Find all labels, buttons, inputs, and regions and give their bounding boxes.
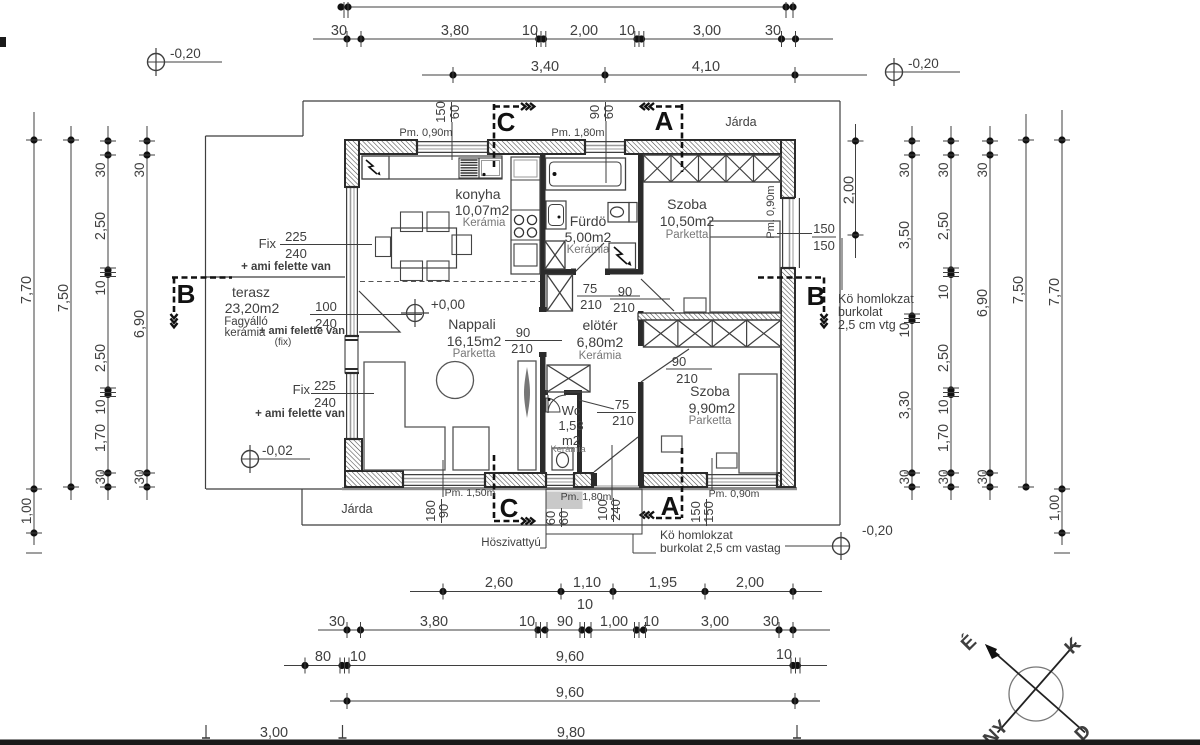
svg-text:1,00: 1,00: [1047, 495, 1062, 521]
window end ticks right wall: [781, 198, 795, 268]
kitchen electric panel with arrow: [362, 156, 389, 179]
outer wall top-left segment: [345, 140, 417, 154]
top dim line segments (y=39): [313, 23, 833, 47]
svg-text:90: 90: [557, 614, 573, 630]
oven: [514, 244, 537, 266]
svg-text:7,70: 7,70: [19, 276, 35, 304]
svg-text:2,00: 2,00: [736, 575, 764, 591]
+0,00 benchmark: [401, 297, 465, 327]
svg-text:10,07m2: 10,07m2: [455, 202, 510, 218]
svg-text:60: 60: [601, 105, 616, 119]
left dim line 30/2,50/10/2,50/10/1,70/30: [93, 126, 116, 500]
svg-text:90: 90: [587, 105, 602, 119]
Fix 225/240 upper label: [241, 229, 372, 273]
svg-text:2,50: 2,50: [936, 344, 952, 372]
section B marker right: [758, 278, 828, 328]
top wall window 150/60 kitchen: [417, 141, 488, 153]
svg-text:10: 10: [350, 649, 366, 665]
kitchen dish rack: [459, 158, 479, 178]
svg-text:1,10: 1,10: [573, 575, 601, 591]
svg-text:10: 10: [897, 322, 912, 337]
black mark left edge: [0, 37, 6, 47]
svg-text:150: 150: [701, 501, 716, 523]
terasz label: [224, 284, 345, 348]
svg-text:210: 210: [612, 413, 634, 428]
section A marker top: [641, 103, 682, 172]
svg-text:240: 240: [285, 246, 307, 261]
dining table: [392, 228, 457, 268]
svg-text:60: 60: [556, 511, 571, 525]
svg-text:6,90: 6,90: [132, 310, 148, 338]
60/60 rotated label: [543, 508, 571, 527]
svg-text:30: 30: [765, 23, 781, 39]
svg-text:7,50: 7,50: [56, 284, 72, 312]
benchmark -0,20 bottom right: [785, 523, 893, 560]
svg-text:3,30: 3,30: [897, 391, 913, 419]
top window label 150/60 rotated: [433, 101, 462, 160]
section A marker bottom: [641, 448, 682, 521]
svg-text:Fix: Fix: [259, 236, 277, 251]
svg-text:150: 150: [813, 221, 835, 236]
svg-text:3,80: 3,80: [441, 23, 469, 39]
left wall terrace door frame: [345, 336, 358, 373]
svg-text:225: 225: [314, 378, 336, 393]
svg-text:elötér: elötér: [582, 317, 617, 333]
svg-text:7,50: 7,50: [1011, 276, 1027, 304]
svg-text:Parketta: Parketta: [453, 348, 496, 360]
svg-text:30: 30: [897, 469, 912, 484]
svg-text:30: 30: [897, 162, 912, 177]
svg-text:3,00: 3,00: [260, 725, 288, 741]
svg-text:10: 10: [519, 614, 535, 630]
svg-text:90: 90: [516, 325, 530, 340]
bottom label Pm. 0,90m right: [709, 458, 760, 500]
Fix 225/240 lower label: [255, 378, 374, 420]
svg-text:9,90m2: 9,90m2: [689, 400, 736, 416]
szoba2 bed: [739, 374, 777, 473]
terrace door swing triangle: [359, 291, 400, 332]
svg-text:A: A: [661, 491, 680, 521]
svg-text:10: 10: [643, 614, 659, 630]
bottom wall window 150/150 szoba2: [707, 474, 777, 486]
szoba2 door label 90/210: [666, 354, 712, 386]
fürdő bottom wall: [545, 269, 575, 275]
bathroom heater with arrow: [609, 243, 636, 269]
benchmark -0,20 top left: [147, 46, 222, 76]
svg-text:2,00: 2,00: [570, 23, 598, 39]
heat pump porch: [546, 489, 642, 534]
150/150 rotated label bottom: [688, 499, 716, 526]
svg-text:burkolat 2,5 cm vastag: burkolat 2,5 cm vastag: [660, 541, 781, 555]
svg-text:30: 30: [975, 469, 990, 484]
right dim line 30/6,90/30: [975, 126, 998, 500]
szoba2 door swing 90/210: [641, 349, 689, 382]
svg-text:75: 75: [583, 281, 597, 296]
svg-text:225: 225: [285, 229, 307, 244]
szoba1 150/150 window label: [777, 221, 836, 253]
svg-text:Kerámia: Kerámia: [550, 444, 586, 455]
180/90 rotated label: [423, 499, 451, 523]
szoba1 wardrobe band: [644, 155, 782, 182]
section B marker left: [171, 278, 233, 328]
svg-text:-0,20: -0,20: [170, 46, 201, 61]
svg-text:30: 30: [329, 614, 345, 630]
svg-text:Kö homlokzat: Kö homlokzat: [838, 292, 914, 306]
svg-text:9,60: 9,60: [556, 685, 584, 701]
window end ticks left wall: [345, 187, 359, 439]
szoba1 door swing 90/210: [641, 279, 674, 311]
svg-text:2,5 cm vtg: 2,5 cm vtg: [838, 318, 896, 332]
svg-text:30: 30: [975, 162, 990, 177]
window end ticks top wall: [417, 140, 625, 154]
szoba1 door label 90/210: [610, 284, 670, 315]
terrace outline (terasz): [206, 277, 345, 489]
left wall window Fix 225 upper: [346, 187, 358, 336]
Höszivattyú label: [481, 534, 546, 549]
bottom wall entrance door gap: [593, 485, 640, 487]
elötér wardrobe 2: [547, 365, 590, 392]
Wc label: [550, 403, 586, 455]
stove 4 rings: [514, 215, 536, 237]
svg-text:Fix: Fix: [293, 382, 311, 397]
bottom dim row 9,80: [202, 725, 801, 741]
kitchen right counter: [511, 157, 540, 274]
svg-text:Parketta: Parketta: [689, 415, 732, 427]
svg-text:4,10: 4,10: [692, 59, 720, 75]
svg-text:Wc: Wc: [562, 403, 581, 418]
svg-text:30: 30: [763, 614, 779, 630]
svg-text:30: 30: [93, 162, 108, 177]
svg-text:Pm. 0,90m: Pm. 0,90m: [765, 185, 777, 238]
svg-text:9,80: 9,80: [557, 725, 585, 741]
szoba2 wardrobe band: [644, 320, 782, 347]
bottom wall window 180/90 nappali: [403, 474, 485, 486]
svg-text:7,70: 7,70: [1047, 278, 1063, 306]
svg-text:10: 10: [936, 284, 951, 299]
svg-text:Parketta: Parketta: [666, 229, 709, 241]
100/240 rotated label: [595, 445, 623, 522]
section C marker bottom: [494, 455, 534, 525]
svg-text:210: 210: [676, 371, 698, 386]
svg-text:10: 10: [936, 399, 951, 414]
svg-text:1,00: 1,00: [19, 498, 34, 524]
right wall upper hatch: [781, 140, 795, 198]
interior wall konyha/fürdő + nappali/elötér (x=540): [540, 154, 546, 311]
svg-text:6,90: 6,90: [975, 289, 991, 317]
svg-text:B: B: [807, 281, 826, 311]
svg-text:-0,20: -0,20: [908, 56, 939, 71]
svg-text:100: 100: [315, 299, 337, 314]
bottom wall left corner hatch: [345, 471, 403, 487]
svg-text:16,15m2: 16,15m2: [447, 333, 502, 349]
konyha label: [455, 186, 510, 229]
svg-text:terasz: terasz: [232, 284, 270, 300]
svg-text:210: 210: [580, 297, 602, 312]
svg-text:60: 60: [447, 105, 462, 119]
WC right wall: [577, 395, 582, 473]
top wall window 90/60 bath: [585, 141, 625, 153]
right dim line 30/3,50/10/3,30/30: [897, 126, 920, 500]
svg-text:Járda: Járda: [725, 115, 756, 129]
svg-text:240: 240: [608, 499, 623, 521]
benchmark -0,02 terrace: [241, 443, 310, 473]
svg-text:23,20m2: 23,20m2: [225, 300, 280, 316]
left dim line 30/6,90/30: [132, 126, 155, 500]
WC door arc: [548, 395, 566, 413]
svg-text:9,60: 9,60: [556, 649, 584, 665]
right dim line 7,70 + 1,00: [1047, 110, 1070, 553]
svg-text:30: 30: [936, 162, 951, 177]
plinth line below house: [342, 487, 797, 490]
szoba2 nightstand: [717, 453, 738, 468]
svg-text:2,00: 2,00: [842, 176, 858, 204]
szoba2 label: [689, 383, 736, 427]
bottom note Kö homlokzat vastag: [633, 528, 781, 555]
svg-text:+ ami felette van: + ami felette van: [255, 408, 345, 420]
wc door label 75/210: [579, 397, 636, 428]
left wall window Fix 225 lower: [346, 373, 358, 439]
left wall lower corner hatch: [345, 439, 362, 487]
svg-text:30: 30: [132, 469, 147, 484]
outer wall top-right segment: [625, 140, 795, 154]
bottom wall hatch segment 2: [485, 473, 546, 487]
right dim line 30/2,50/10/2,50/10/1,70/30: [936, 126, 959, 500]
svg-text:burkolat: burkolat: [838, 305, 883, 319]
bottom dim line 9,60: [330, 685, 820, 709]
chairs: [376, 212, 472, 281]
szoba1 label: [660, 196, 715, 241]
svg-text:150: 150: [813, 238, 835, 253]
svg-text:10: 10: [776, 647, 792, 663]
svg-text:30: 30: [936, 469, 951, 484]
right dim line 2,00: [842, 124, 864, 258]
svg-text:2,50: 2,50: [93, 212, 109, 240]
top window label 90/60 rotated: [587, 102, 616, 183]
svg-text:-0,02: -0,02: [262, 443, 293, 458]
svg-text:Kerámia: Kerámia: [579, 350, 622, 362]
svg-text:2,50: 2,50: [93, 344, 109, 372]
svg-text:3,50: 3,50: [897, 221, 913, 249]
svg-text:30: 30: [331, 23, 347, 39]
svg-text:3,40: 3,40: [531, 59, 559, 75]
svg-text:C: C: [497, 107, 516, 137]
svg-text:5,00m2: 5,00m2: [565, 229, 612, 245]
fürdö door label 75/210: [577, 281, 640, 312]
right wall window 150/150 szoba1: [782, 198, 800, 268]
svg-text:30: 30: [93, 469, 108, 484]
svg-text:3,00: 3,00: [701, 614, 729, 630]
svg-text:3,80: 3,80: [420, 614, 448, 630]
bottom dim line 30/3,80/10/90/10/1,00/10/3,00/30: [318, 597, 830, 638]
nappali door label 90/210: [505, 325, 562, 356]
svg-text:Pm. 0,90m: Pm. 0,90m: [399, 127, 452, 139]
tall cabinet: [518, 361, 536, 470]
svg-text:Pm. 0,90m: Pm. 0,90m: [709, 488, 760, 500]
bathroom shower x-box: [545, 241, 565, 269]
svg-text:(fix): (fix): [275, 337, 292, 348]
WC toilet: [552, 448, 573, 470]
svg-text:Pm. 1,50m: Pm. 1,50m: [445, 487, 496, 499]
nappali/elötér door frame gap: [539, 307, 547, 312]
svg-text:90: 90: [672, 354, 686, 369]
konyha/nappali dashed divider: [360, 281, 540, 283]
svg-text:10,50m2: 10,50m2: [660, 213, 715, 229]
right dim line 7,50: [1011, 114, 1034, 491]
svg-text:10: 10: [93, 280, 108, 295]
svg-text:90: 90: [436, 504, 451, 518]
szoba2 chair: [662, 436, 683, 452]
elötér wardrobe 1: [547, 275, 573, 312]
section C marker top: [494, 103, 534, 170]
svg-text:konyha: konyha: [455, 186, 500, 202]
black bar bottom edge: [0, 740, 1200, 745]
elötér/szoba wall (x=638): [638, 154, 644, 274]
svg-text:10: 10: [619, 23, 635, 39]
elötér label: [577, 317, 624, 362]
svg-text:1,70: 1,70: [936, 424, 952, 452]
Nappali label: [447, 316, 502, 360]
kitchen sink: [479, 158, 502, 178]
sofa L-shape: [364, 362, 489, 470]
svg-text:1,00: 1,00: [600, 614, 628, 630]
svg-text:10: 10: [577, 597, 593, 613]
WC top wall stubs: [540, 390, 548, 395]
svg-text:210: 210: [613, 300, 635, 315]
top dim line 3,40 / 4,10 (y=75): [422, 59, 867, 83]
svg-text:Kerámia: Kerámia: [567, 244, 610, 256]
right wall lower hatch: [781, 268, 795, 487]
svg-text:Járda: Járda: [341, 502, 372, 516]
bottom dim line 80/10/9,60/10: [284, 647, 827, 674]
szoba1 bed: [710, 221, 780, 312]
left wall upper hatch: [345, 140, 359, 187]
svg-text:75: 75: [615, 397, 629, 412]
window end ticks bottom wall: [403, 473, 777, 487]
svg-text:A: A: [655, 106, 674, 136]
top dim line total (y=7): [337, 2, 796, 18]
svg-text:210: 210: [511, 341, 533, 356]
bathtub: [546, 158, 626, 190]
svg-text:1,95: 1,95: [649, 575, 677, 591]
svg-text:80: 80: [315, 649, 331, 665]
svg-text:10: 10: [93, 399, 108, 414]
svg-text:1,70: 1,70: [93, 424, 109, 452]
svg-text:Pm. 1,80m: Pm. 1,80m: [551, 127, 604, 139]
svg-text:3,00: 3,00: [693, 23, 721, 39]
benchmark -0,20 top right: [885, 56, 960, 86]
svg-text:Kerámia: Kerámia: [463, 217, 506, 229]
entrance door swing: [594, 437, 638, 472]
plot boundary / Járda outline: [206, 101, 841, 525]
svg-text:240: 240: [315, 316, 337, 331]
svg-text:2,50: 2,50: [936, 212, 952, 240]
svg-text:+0,00: +0,00: [431, 297, 465, 312]
svg-text:2,60: 2,60: [485, 575, 513, 591]
fürdő door swing 75/210: [575, 243, 604, 272]
right mid note Kö homlokzat: [838, 238, 914, 332]
svg-text:10: 10: [522, 23, 538, 39]
left dim line 7,50: [56, 126, 79, 500]
bottom wall hatch segment 4: [640, 473, 707, 487]
bottom wall hatch segment 3: [574, 473, 593, 487]
svg-text:Kö homlokzat: Kö homlokzat: [660, 528, 733, 542]
szoba1/szoba2 divider wall: [638, 313, 781, 320]
svg-text:B: B: [177, 279, 196, 309]
svg-text:Szoba: Szoba: [667, 196, 707, 212]
svg-text:Nappali: Nappali: [448, 316, 495, 332]
bathroom WC: [608, 203, 637, 223]
svg-text:150: 150: [433, 101, 448, 123]
terrace door label 100/240: [310, 299, 422, 331]
svg-text:6,80m2: 6,80m2: [577, 334, 624, 350]
outer wall top-middle segment: [488, 140, 585, 154]
svg-text:Fürdö: Fürdö: [570, 213, 607, 229]
svg-text:-0,20: -0,20: [862, 523, 893, 538]
washbasin bathroom: [546, 201, 566, 229]
WC corner basin: [546, 398, 560, 412]
svg-text:+ ami felette van: + ami felette van: [241, 261, 331, 273]
svg-text:30: 30: [132, 162, 147, 177]
bottom dim line 2,60/1,10/1,95/2,00: [410, 575, 822, 600]
bottom wall WC window 60/60: [546, 474, 574, 486]
svg-text:1,53: 1,53: [558, 418, 583, 433]
round table: [437, 362, 474, 399]
left dim line 7,70 + 1,00: [19, 112, 42, 553]
bottom wall right corner hatch: [777, 473, 795, 487]
szoba1 nightstand: [684, 298, 706, 312]
compass rose: [956, 630, 1095, 745]
svg-text:C: C: [500, 493, 519, 523]
Fürdö label: [565, 213, 612, 256]
bottom label Pm. 1,50m: [443, 460, 496, 499]
kitchen top counter: [362, 156, 502, 179]
svg-text:Höszivattyú: Höszivattyú: [481, 537, 540, 549]
svg-text:90: 90: [618, 284, 632, 299]
